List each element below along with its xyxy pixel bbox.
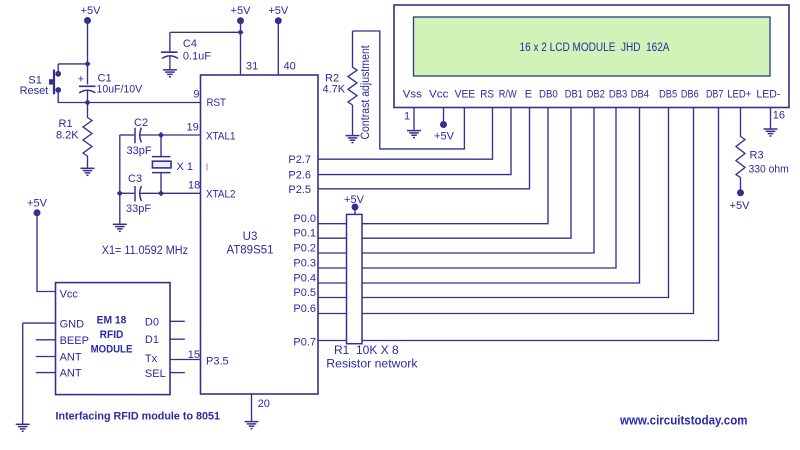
svg-text:EM 18: EM 18	[97, 315, 127, 327]
svg-text:P2.6: P2.6	[288, 170, 311, 182]
wire crystal bottom lead	[160, 173, 162, 193]
wire P0.4 to LCD DB4	[318, 108, 640, 284]
svg-text:31: 31	[246, 61, 258, 73]
+5V supply pin 31	[231, 5, 252, 24]
wire R2 top lead	[352, 31, 354, 68]
wire C4 to +5V rail	[170, 31, 240, 33]
svg-text:4.7K: 4.7K	[323, 84, 346, 96]
wire to S1 top	[58, 63, 87, 65]
svg-text:16 x 2 LCD MODULE JHD 162A: 16 x 2 LCD MODULE JHD 162A	[520, 42, 670, 54]
svg-text:18: 18	[188, 180, 200, 192]
wire S1 top lead	[57, 64, 59, 71]
wire ANT1 stub	[36, 356, 56, 358]
+5V supply resistor network	[344, 194, 365, 211]
svg-text:Interfacing RFID module to 805: Interfacing RFID module to 8051	[56, 411, 221, 423]
wire R2 to ground	[352, 105, 354, 136]
capacitor C1	[78, 74, 96, 93]
wire crystal top lead	[160, 135, 162, 156]
svg-text:LED+: LED+	[727, 89, 751, 101]
svg-text:+5V: +5V	[434, 131, 455, 143]
svg-text:SEL: SEL	[145, 368, 166, 380]
resistor network R1 10K x 8 box	[347, 214, 363, 343]
svg-text:Reset: Reset	[20, 85, 49, 97]
junction C3 left	[117, 190, 123, 196]
junction RST node	[84, 99, 90, 105]
wire GND lead	[23, 322, 56, 324]
svg-text:P0.0: P0.0	[293, 213, 316, 225]
LCD module box	[394, 5, 789, 108]
RFID module EM-18 box	[56, 283, 171, 395]
svg-text:XTAL1: XTAL1	[206, 131, 236, 143]
ground C4	[163, 70, 177, 77]
svg-text:Tx: Tx	[145, 353, 158, 365]
svg-text:DB7: DB7	[706, 89, 724, 101]
junction C4 tap	[237, 29, 243, 35]
svg-text:P0.5: P0.5	[293, 287, 316, 299]
switch S1 pushbutton	[49, 70, 61, 95]
wire ANT2 stub	[36, 372, 56, 374]
svg-text:Vcc: Vcc	[429, 89, 449, 101]
svg-text:33pF: 33pF	[126, 203, 151, 215]
wire P2.7 to LCD RS	[318, 108, 493, 160]
svg-text:DB2: DB2	[587, 89, 605, 101]
svg-text:www.circuitstoday.com: www.circuitstoday.com	[619, 414, 747, 428]
wire P0.7 to LCD DB7	[318, 108, 719, 341]
svg-text:R1 10K X 8: R1 10K X 8	[334, 345, 399, 357]
wire +5V to U3 pin 40	[277, 21, 279, 75]
wire D1 stub	[170, 338, 185, 340]
wire Vss to ground	[413, 108, 415, 131]
svg-text:C3: C3	[128, 173, 142, 185]
svg-text:15: 15	[188, 349, 200, 361]
wire C1 bottom to R1	[87, 90, 89, 118]
svg-text:1: 1	[404, 111, 410, 123]
svg-text:P0.4: P0.4	[293, 273, 316, 285]
svg-text:9: 9	[193, 89, 199, 101]
resistor R1	[83, 118, 92, 157]
wire S1 bottom to node	[58, 93, 87, 103]
wire U3 pin 20 to ground	[251, 394, 253, 422]
ground U3 pin 20	[245, 422, 259, 429]
wire +5V to RFID Vcc	[37, 213, 56, 292]
svg-text:DB4: DB4	[631, 89, 649, 101]
junction XTAL2 to crystal	[158, 190, 164, 196]
svg-text:RST: RST	[207, 97, 227, 109]
svg-text:P2.7: P2.7	[288, 154, 311, 166]
svg-text:D0: D0	[145, 317, 159, 329]
svg-text:P2.5: P2.5	[288, 184, 311, 196]
svg-text:Contrast adjustment: Contrast adjustment	[360, 45, 372, 140]
svg-text:R1: R1	[59, 118, 73, 130]
resistor R3	[736, 137, 745, 178]
svg-text:+5V: +5V	[730, 200, 751, 212]
junction switch top tap	[84, 61, 90, 67]
svg-text:R/W: R/W	[499, 89, 517, 101]
resistor R2	[348, 67, 357, 105]
wire BEEP stub	[36, 339, 56, 341]
capacitor C4	[161, 52, 178, 58]
svg-text:DB6: DB6	[681, 89, 699, 101]
LCD display green area	[414, 17, 771, 76]
svg-text:0.1uF: 0.1uF	[183, 51, 211, 63]
svg-text:P3.5: P3.5	[206, 356, 229, 368]
svg-text:RS: RS	[480, 89, 494, 101]
ground reset	[81, 168, 95, 175]
wire SEL stub	[170, 372, 185, 374]
svg-text:DB5: DB5	[659, 89, 677, 101]
ground RFID GND	[16, 424, 30, 431]
svg-text:GND: GND	[60, 319, 85, 331]
svg-text:X1= 11.0592 MHz: X1= 11.0592 MHz	[102, 245, 188, 257]
svg-text:DB1: DB1	[565, 89, 583, 101]
wire +5V to U3 pin 31	[240, 21, 242, 75]
svg-text:ANT: ANT	[60, 352, 82, 364]
ground LCD Vss	[407, 131, 421, 138]
ground LCD LED-	[764, 129, 778, 136]
ground R2	[346, 136, 360, 143]
wire R1 to ground	[87, 156, 89, 168]
wire XTAL2 net to U3 pin 18	[140, 192, 201, 194]
wire +5V to C1 top	[87, 21, 89, 85]
svg-text:XTAL2: XTAL2	[206, 189, 236, 201]
svg-text:19: 19	[187, 122, 199, 134]
svg-text:X 1: X 1	[177, 161, 194, 173]
ground crystal caps	[113, 224, 127, 231]
svg-text:P0.1: P0.1	[293, 228, 316, 240]
svg-text:DB0: DB0	[539, 89, 558, 101]
wire VEE to R2 contrast	[353, 31, 465, 149]
svg-text:40: 40	[284, 61, 296, 73]
wire Vcc to +5V	[443, 108, 445, 125]
svg-text:+5V: +5V	[268, 5, 289, 17]
svg-text:Resistor network: Resistor network	[326, 359, 417, 371]
svg-text:330 ohm: 330 ohm	[749, 163, 789, 175]
artifact red tick	[206, 164, 208, 171]
wire C2 left lead	[120, 134, 134, 136]
svg-text:C4: C4	[183, 38, 197, 50]
svg-text:+5V: +5V	[81, 5, 102, 17]
wire C4 to ground	[169, 56, 171, 71]
+5V supply LCD Vcc	[434, 121, 455, 143]
wire C3 left lead	[120, 192, 134, 194]
svg-text:33pF: 33pF	[127, 145, 152, 157]
wire GND down	[22, 323, 24, 424]
svg-text:+: +	[78, 74, 84, 86]
wire P2.5 to LCD E	[318, 108, 530, 189]
+5V supply reset net	[81, 5, 102, 24]
junction XTAL1 to crystal	[158, 132, 164, 138]
wire XTAL1 net to U3 pin 19	[140, 134, 201, 136]
svg-text:P0.6: P0.6	[293, 303, 316, 315]
+5V supply pin 40	[268, 5, 289, 24]
wire LED+ to R3	[740, 108, 742, 138]
wire P0.1 to LCD DB1	[318, 108, 571, 239]
svg-text:P0.7: P0.7	[293, 337, 316, 349]
wire caps common to ground	[119, 135, 121, 224]
capacitor C3	[135, 186, 141, 202]
+5V supply RFID	[27, 197, 48, 216]
svg-text:C2: C2	[134, 117, 148, 129]
wire P2.6 to LCD R/W	[318, 108, 511, 175]
svg-text:10uF/10V: 10uF/10V	[97, 84, 143, 96]
wire P0.6 to LCD DB6	[318, 108, 694, 314]
capacitor C2	[135, 128, 141, 144]
svg-text:R2: R2	[325, 72, 339, 84]
svg-text:8.2K: 8.2K	[56, 130, 79, 142]
wire D0 stub	[170, 320, 185, 322]
svg-text:Vcc: Vcc	[60, 289, 79, 301]
wire Tx to U3 P3.5	[170, 359, 201, 361]
wire R3 bottom lead	[740, 178, 742, 193]
wire P0.5 to LCD DB5	[318, 108, 669, 298]
svg-text:LED-: LED-	[756, 89, 780, 101]
svg-text:P0.3: P0.3	[293, 258, 316, 270]
svg-text:D1: D1	[145, 334, 159, 346]
svg-text:DB3: DB3	[609, 89, 627, 101]
wire P0.3 to LCD DB3	[318, 108, 616, 269]
svg-text:AT89S51: AT89S51	[226, 245, 273, 257]
svg-text:VEE: VEE	[455, 89, 476, 101]
svg-text:ANT: ANT	[60, 368, 82, 380]
svg-text:U3: U3	[243, 231, 258, 243]
svg-text:MODULE: MODULE	[91, 344, 133, 356]
svg-text:16: 16	[773, 110, 785, 122]
svg-text:20: 20	[258, 398, 270, 410]
svg-text:E: E	[525, 89, 532, 101]
wire P0.2 to LCD DB2	[318, 108, 594, 254]
svg-text:RFID: RFID	[100, 329, 124, 341]
crystal X1	[152, 157, 171, 173]
wire +5V to network	[354, 207, 356, 215]
svg-text:Vss: Vss	[403, 89, 423, 101]
wire RST net to U3 pin 9	[88, 102, 201, 104]
svg-text:R3: R3	[750, 149, 764, 161]
+5V supply R3	[730, 189, 751, 212]
svg-text:+5V: +5V	[231, 5, 252, 17]
svg-text:+5V: +5V	[27, 197, 48, 209]
op-amp U3 AT89S51 microcontroller box	[201, 75, 319, 394]
wire LED- to ground	[770, 108, 772, 130]
wire C4 top lead	[169, 32, 171, 51]
svg-text:BEEP: BEEP	[60, 335, 89, 347]
wire P0.0 to LCD DB0	[318, 108, 548, 224]
svg-text:P0.2: P0.2	[293, 243, 316, 255]
